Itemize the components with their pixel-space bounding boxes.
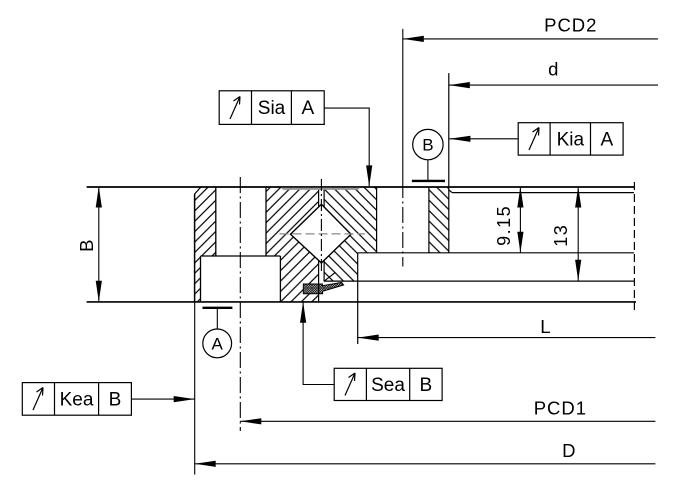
svg-text:D: D: [562, 440, 575, 461]
outer bolt hole centerline: [239, 177, 241, 431]
svg-text:A: A: [600, 129, 613, 150]
dimension PCD2: [403, 15, 658, 183]
outer ring section hatched: [195, 187, 319, 302]
svg-text:L: L: [540, 316, 550, 337]
diamond horizontal centerline gray: [280, 233, 365, 235]
svg-text:A: A: [212, 335, 224, 354]
svg-text:B: B: [109, 389, 122, 410]
dimension 13: [551, 187, 581, 281]
svg-text:PCD2: PCD2: [544, 15, 597, 36]
tolerance frame Kea: [22, 383, 194, 416]
roller diamond: [291, 204, 352, 263]
diamond vertical centerline: [320, 179, 322, 272]
datum B: [412, 129, 445, 180]
svg-text:d: d: [548, 59, 558, 80]
plug channel: [319, 190, 325, 302]
inner bolt hole centerline: [402, 182, 404, 267]
svg-text:B: B: [76, 240, 97, 252]
svg-text:A: A: [301, 98, 314, 119]
dimension B left: [76, 187, 102, 302]
tolerance frame Sea: [300, 302, 442, 401]
outer ring outline: [195, 187, 281, 302]
svg-text:9.15: 9.15: [494, 205, 514, 246]
inner ring section hatched: [324, 187, 449, 282]
datum A: [203, 308, 233, 358]
right break dashed line: [633, 182, 635, 310]
svg-text:B: B: [420, 375, 433, 396]
svg-text:B: B: [422, 136, 433, 155]
svg-text:Kea: Kea: [60, 389, 94, 410]
tolerance frame Sia: [219, 91, 372, 187]
dimension PCD1: [240, 398, 655, 425]
top surface line: [87, 186, 634, 188]
bottom surface line: [87, 301, 636, 303]
svg-text:Sea: Sea: [371, 375, 405, 396]
svg-text:13: 13: [551, 224, 571, 247]
inner ring outline: [324, 73, 634, 344]
gray shim bar: [281, 188, 361, 190]
svg-text:Kia: Kia: [557, 129, 585, 150]
dimension L: [358, 316, 656, 341]
seal: [303, 282, 343, 293]
svg-text:Sia: Sia: [258, 98, 286, 119]
dimension 9.15: [494, 187, 524, 253]
svg-text:PCD1: PCD1: [534, 398, 587, 419]
inner ring seal chamfer: [325, 272, 336, 281]
dimension d: [449, 59, 658, 89]
dimension D: [195, 302, 656, 475]
tolerance frame Kia: [449, 123, 623, 155]
